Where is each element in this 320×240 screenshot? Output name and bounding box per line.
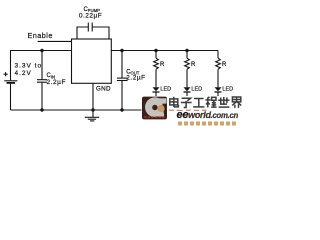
svg-text:LED: LED	[191, 87, 202, 93]
svg-text:GND: GND	[96, 85, 111, 92]
svg-text:4.2V: 4.2V	[15, 70, 32, 77]
svg-text:R: R	[191, 62, 196, 68]
svg-text:Enable: Enable	[28, 31, 53, 40]
svg-text:eeworld.com.cn: eeworld.com.cn	[177, 109, 239, 121]
svg-text:3.3V to: 3.3V to	[15, 63, 43, 70]
svg-text:R: R	[160, 62, 165, 68]
svg-text:2.2µF: 2.2µF	[126, 75, 146, 82]
svg-text:LED: LED	[160, 87, 171, 93]
svg-text:LED: LED	[222, 87, 233, 93]
svg-text:R: R	[222, 62, 227, 68]
svg-text:2.2µF: 2.2µF	[47, 79, 67, 86]
svg-text:0.22µF: 0.22µF	[79, 13, 102, 20]
